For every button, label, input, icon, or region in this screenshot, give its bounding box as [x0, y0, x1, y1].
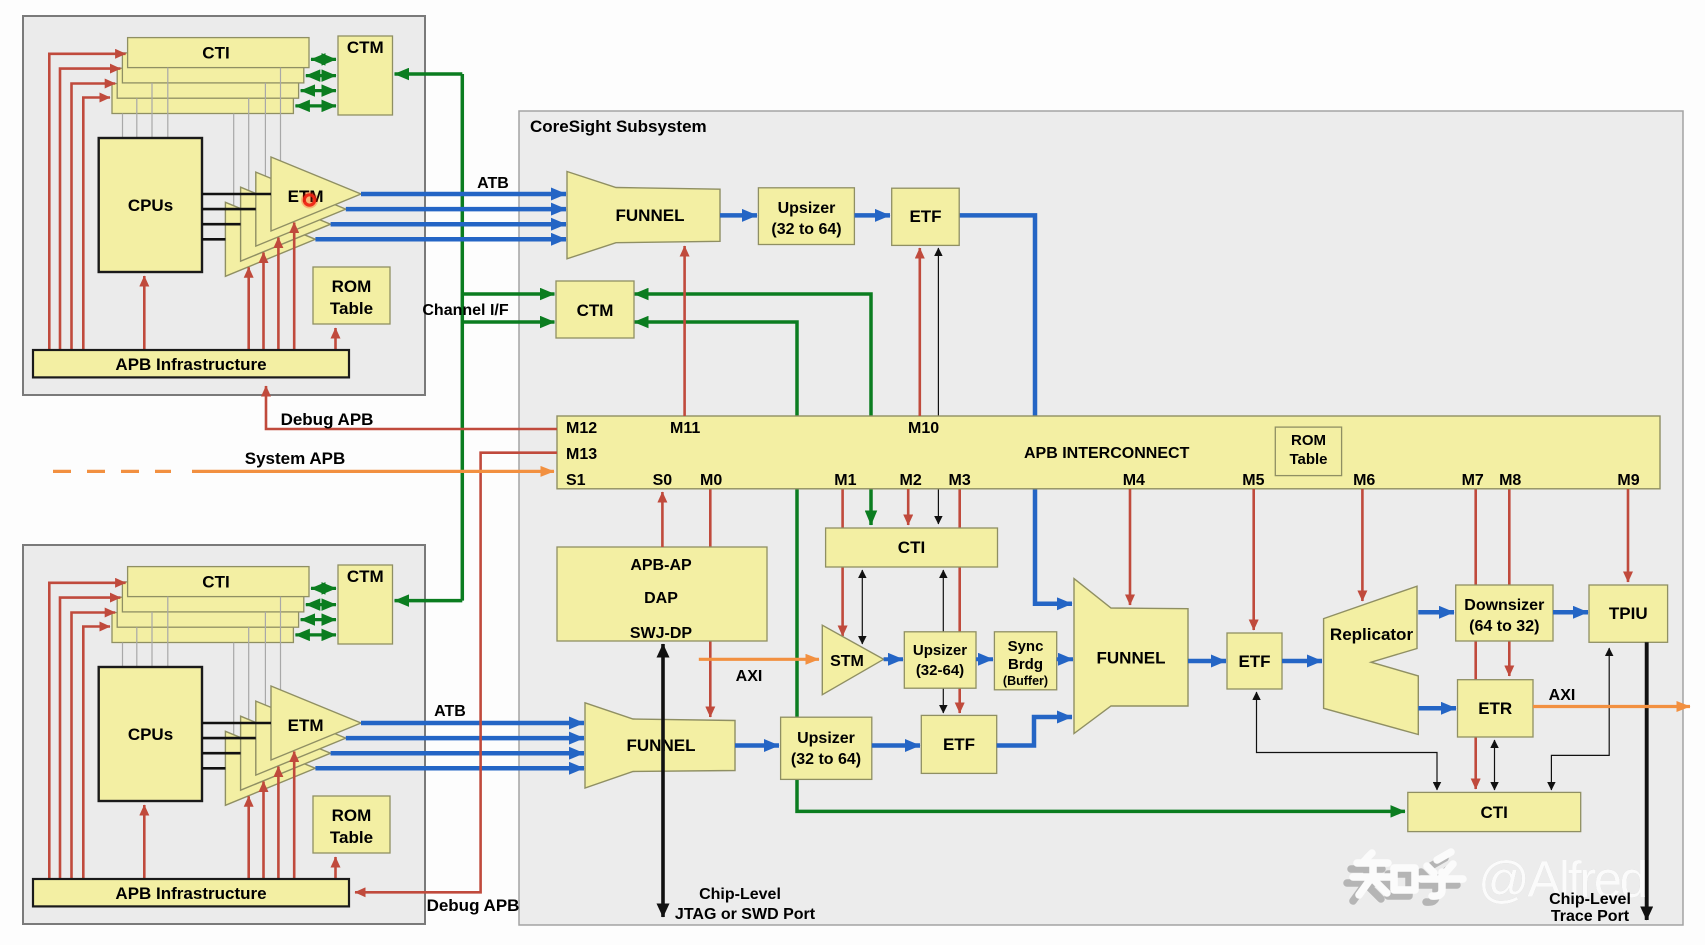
svg-text:CTI: CTI — [202, 573, 229, 592]
ETM triangle 4 cluster B — [225, 731, 315, 805]
wire red M1 to STM — [841, 489, 844, 636]
svg-text:CTM: CTM — [577, 301, 614, 320]
svg-text:M4: M4 — [1123, 472, 1145, 489]
svg-text:Sync: Sync — [1008, 638, 1044, 655]
svg-text:AXI: AXI — [736, 668, 763, 685]
svg-text:APB Infrastructure: APB Infrastructure — [115, 355, 266, 374]
svg-text:ETR: ETR — [1478, 699, 1512, 718]
triangle STM — [822, 625, 883, 695]
wire blue Downsizer to TPIU — [1553, 610, 1588, 615]
wire green CTM1 to CTI3 — [634, 322, 1405, 811]
svg-text:JTAG or SWD Port: JTAG or SWD Port — [675, 906, 816, 923]
red APB feeds to ETM cluster B — [247, 796, 250, 879]
svg-text:Channel I/F: Channel I/F — [422, 302, 508, 319]
green channel arrows CTI-CTM cluster B — [311, 587, 336, 590]
ETM triangle 4 cluster A — [225, 202, 315, 276]
svg-text:ATB: ATB — [434, 703, 466, 720]
wire red M8 to ETR — [1508, 489, 1511, 676]
red APB feeds to CTI cluster B — [49, 583, 125, 879]
CTI box 1 cluster A — [128, 38, 309, 68]
svg-text:(32 to 64): (32 to 64) — [771, 221, 841, 238]
block Upsizer2 — [781, 717, 872, 779]
wires blue ATB cluster B — [361, 721, 584, 726]
ROM Table in interconnect — [1275, 427, 1341, 476]
red APB feed to CPUs cluster A — [143, 276, 146, 350]
block TPIU — [1589, 585, 1668, 642]
block ETF3 — [1227, 633, 1282, 689]
ETM triangle 2 cluster B — [256, 701, 346, 775]
wire red M7 to CTI3 — [1474, 489, 1477, 789]
wire blue FUNNEL3 to ETF3 — [1188, 659, 1226, 664]
wires CPUs to ETM cluster B — [202, 722, 271, 725]
wire orange AXI to STM — [699, 658, 819, 661]
block Downsizer — [1456, 585, 1553, 641]
svg-text:CPUs: CPUs — [128, 196, 173, 215]
wire red S0 from DAP — [661, 492, 664, 547]
CTI box 4 cluster A — [112, 84, 293, 114]
svg-text:ROM: ROM — [1291, 432, 1326, 449]
wire blue FUNNEL2 to Upsizer2 — [735, 743, 779, 748]
wire orange AXI from ETR — [1533, 705, 1690, 708]
svg-text:FUNNEL: FUNNEL — [627, 736, 696, 755]
block CTI2 — [826, 528, 998, 567]
svg-text:CoreSight Subsystem: CoreSight Subsystem — [530, 117, 707, 136]
wire black JTAG/SWD port — [661, 644, 665, 917]
wire blue Replicator to ETR — [1418, 706, 1456, 711]
funnel FUNNEL1 — [567, 172, 720, 259]
ROM Table cluster A — [313, 267, 390, 324]
wire black CTI2-ETF2 — [942, 570, 944, 713]
ROM Table cluster B — [313, 796, 390, 853]
svg-text:ETF: ETF — [1238, 652, 1270, 671]
APB Infrastructure cluster B — [33, 879, 349, 906]
CTM cluster A — [338, 36, 393, 115]
wire red M9 to TPIU — [1627, 489, 1630, 582]
wire red M13 Debug APB — [355, 453, 557, 893]
block CTM1 — [556, 281, 634, 338]
svg-text:Downsizer: Downsizer — [1464, 597, 1544, 614]
wires blue ATB cluster A — [361, 192, 566, 197]
wire blue ETF1 to FUNNEL3 — [959, 215, 1072, 603]
CoreSight Subsystem box — [519, 111, 1683, 925]
svg-text:(Buffer): (Buffer) — [1003, 674, 1048, 688]
svg-text:M1: M1 — [834, 472, 856, 489]
svg-text:M9: M9 — [1617, 472, 1639, 489]
wire green trunk — [461, 74, 465, 601]
svg-text:APB-AP: APB-AP — [630, 557, 692, 574]
red APB feed to ROM Table cluster A — [334, 328, 337, 350]
svg-text:CTI: CTI — [898, 538, 925, 557]
wires CPUs to ETM cluster A — [202, 193, 271, 196]
red pointer dot on ETM — [301, 192, 318, 209]
wire red M4 to FUNNEL3 — [1129, 489, 1132, 605]
CTI box 2 cluster B — [122, 582, 303, 612]
svg-text:S1: S1 — [566, 472, 586, 489]
red APB feeds to CTI cluster A — [49, 54, 125, 350]
svg-text:FUNNEL: FUNNEL — [616, 206, 685, 225]
svg-text:M7: M7 — [1462, 472, 1484, 489]
svg-text:DAP: DAP — [644, 590, 678, 607]
svg-text:APB Infrastructure: APB Infrastructure — [115, 884, 266, 903]
svg-text:CTM: CTM — [347, 38, 384, 57]
svg-text:TPIU: TPIU — [1609, 604, 1648, 623]
svg-text:M8: M8 — [1499, 472, 1521, 489]
red APB feeds to ETM cluster A — [247, 267, 250, 350]
svg-text:SWJ-DP: SWJ-DP — [630, 625, 693, 642]
CTI box 2 cluster A — [122, 53, 303, 83]
svg-text:(32 to 64): (32 to 64) — [791, 751, 861, 768]
wire green to CTM1 lower — [462, 320, 554, 324]
svg-text:ROM: ROM — [332, 806, 372, 825]
svg-text:S0: S0 — [653, 472, 673, 489]
block ETF1 — [892, 188, 960, 245]
CTI box 4 cluster B — [112, 613, 293, 643]
svg-text:CTI: CTI — [1481, 803, 1508, 822]
shape Replicator — [1324, 586, 1419, 734]
ETM triangle 1 cluster A — [271, 157, 361, 231]
svg-text:ATB: ATB — [477, 175, 509, 192]
svg-text:M13: M13 — [566, 446, 597, 463]
wire red M5 to ETF3 — [1252, 489, 1255, 630]
CTI box 1 cluster B — [128, 567, 309, 597]
svg-text:M2: M2 — [900, 472, 922, 489]
wire red M3 to ETF2 — [958, 489, 961, 713]
CPUs cluster B — [99, 667, 202, 801]
CTI box 3 cluster B — [117, 597, 298, 627]
svg-text:STM: STM — [830, 653, 864, 670]
wire red M6 to Replicator — [1361, 489, 1364, 601]
svg-text:ETF: ETF — [909, 207, 941, 226]
svg-text:Table: Table — [330, 299, 373, 318]
wire blue ETF3 to Replicator — [1282, 659, 1322, 664]
block DAP — [557, 547, 767, 641]
watermark zhihu @Alfred — [1347, 858, 1457, 902]
wire black CTI2-STM — [861, 570, 863, 644]
svg-text:Debug APB: Debug APB — [427, 896, 520, 915]
wire blue STM to Upsizer — [884, 657, 903, 661]
svg-text:M0: M0 — [700, 472, 722, 489]
ETM triangle 2 cluster A — [256, 172, 346, 246]
svg-text:Chip-Level: Chip-Level — [1549, 891, 1631, 908]
funnel FUNNEL3 — [1074, 579, 1188, 734]
svg-text:M10: M10 — [908, 420, 939, 437]
green channel arrows CTI-CTM cluster A — [311, 58, 336, 61]
svg-text:CTM: CTM — [347, 567, 384, 586]
wire green CTM1 to CTI2 — [634, 294, 871, 525]
svg-text:Chip-Level: Chip-Level — [699, 886, 781, 903]
red APB feed to ROM Table cluster B — [334, 857, 337, 879]
svg-text:APB INTERCONNECT: APB INTERCONNECT — [1024, 445, 1190, 462]
svg-text:ROM: ROM — [332, 277, 372, 296]
svg-text:Replicator: Replicator — [1330, 625, 1414, 644]
ETM triangle 1 cluster B — [271, 686, 361, 760]
wire green to CTM A — [395, 72, 463, 76]
CTI box 3 cluster A — [117, 68, 298, 98]
svg-text:M3: M3 — [949, 472, 971, 489]
wire red M12 Debug APB — [266, 386, 557, 429]
wire orange System APB — [192, 470, 554, 473]
wire blue Replicator to Downsizer — [1418, 610, 1454, 615]
wire red M2 to CTI2 — [907, 489, 910, 525]
CPU cluster A box — [23, 16, 425, 395]
svg-text:(32-64): (32-64) — [916, 662, 964, 679]
svg-text:ETF: ETF — [943, 735, 975, 754]
svg-text:Debug APB: Debug APB — [281, 410, 374, 429]
wire black ETF1 to CTI2 — [937, 248, 939, 524]
wire black CTI3-ETR — [1494, 740, 1496, 790]
wire black ETF3 to CTI3 — [1257, 692, 1438, 790]
CPU cluster B box — [23, 545, 425, 924]
block Upsizer1 — [758, 188, 854, 245]
wire blue Upsizer1 to ETF1 — [855, 213, 891, 218]
red APB feed to CPUs cluster B — [143, 805, 146, 879]
wire orange System APB dashed — [53, 470, 171, 473]
svg-text:Table: Table — [330, 828, 373, 847]
ETM triangle 3 cluster B — [241, 716, 331, 790]
APB Infrastructure cluster A — [33, 350, 349, 377]
wire black chip-level trace port — [1645, 642, 1649, 920]
svg-text:Table: Table — [1289, 451, 1327, 468]
svg-text:FUNNEL: FUNNEL — [1097, 649, 1166, 668]
APB INTERCONNECT bar — [557, 416, 1660, 489]
ETM triangle 3 cluster A — [241, 187, 331, 261]
svg-text:Upsizer: Upsizer — [913, 642, 967, 659]
svg-text:Trace Port: Trace Port — [1551, 908, 1630, 925]
wire green to CTM1 upper — [462, 292, 554, 296]
wire green to CTM B — [395, 599, 463, 603]
block ETR — [1458, 680, 1534, 737]
block ETF2 — [921, 715, 996, 773]
svg-text:CPUs: CPUs — [128, 725, 173, 744]
wire blue Upsizer to Sync Brdg — [976, 657, 993, 661]
svg-text:M11: M11 — [670, 420, 700, 437]
svg-text:M6: M6 — [1353, 472, 1375, 489]
wires gray CTI to CPUs/ETM — [167, 68, 169, 138]
svg-text:CTI: CTI — [202, 44, 229, 63]
wire blue ETF2 to FUNNEL3 — [997, 717, 1072, 746]
CTM cluster B — [338, 565, 393, 644]
wire blue Upsizer2 to ETF2 — [872, 743, 920, 748]
svg-text:(64 to 32): (64 to 32) — [1469, 618, 1539, 635]
funnel FUNNEL2 — [585, 703, 735, 788]
svg-text:AXI: AXI — [1549, 687, 1576, 704]
wire blue FUNNEL1 to Upsizer1 — [720, 213, 757, 218]
svg-text:M12: M12 — [566, 420, 597, 437]
svg-text:System APB: System APB — [245, 449, 345, 468]
svg-text:ETM: ETM — [288, 716, 324, 735]
block Sync Brdg — [994, 632, 1056, 690]
block Upsizer mid — [904, 632, 976, 688]
svg-text:M5: M5 — [1242, 472, 1264, 489]
block CTI3 — [1408, 792, 1581, 831]
wire blue Sync Brdg to FUNNEL3 — [1057, 657, 1073, 661]
CPUs cluster A — [99, 138, 202, 272]
wire red M0 to FUNNEL2 — [709, 489, 712, 717]
svg-text:Upsizer: Upsizer — [797, 730, 855, 747]
svg-text:Brdg: Brdg — [1008, 656, 1043, 673]
wire red M11 to FUNNEL1 — [683, 246, 686, 416]
wire red M10 to ETF1 — [918, 248, 921, 416]
wires gray CTI to CPUs/ETM — [167, 597, 169, 667]
svg-text:Upsizer: Upsizer — [778, 200, 836, 217]
wire black CTI3-TPIU — [1551, 648, 1609, 790]
